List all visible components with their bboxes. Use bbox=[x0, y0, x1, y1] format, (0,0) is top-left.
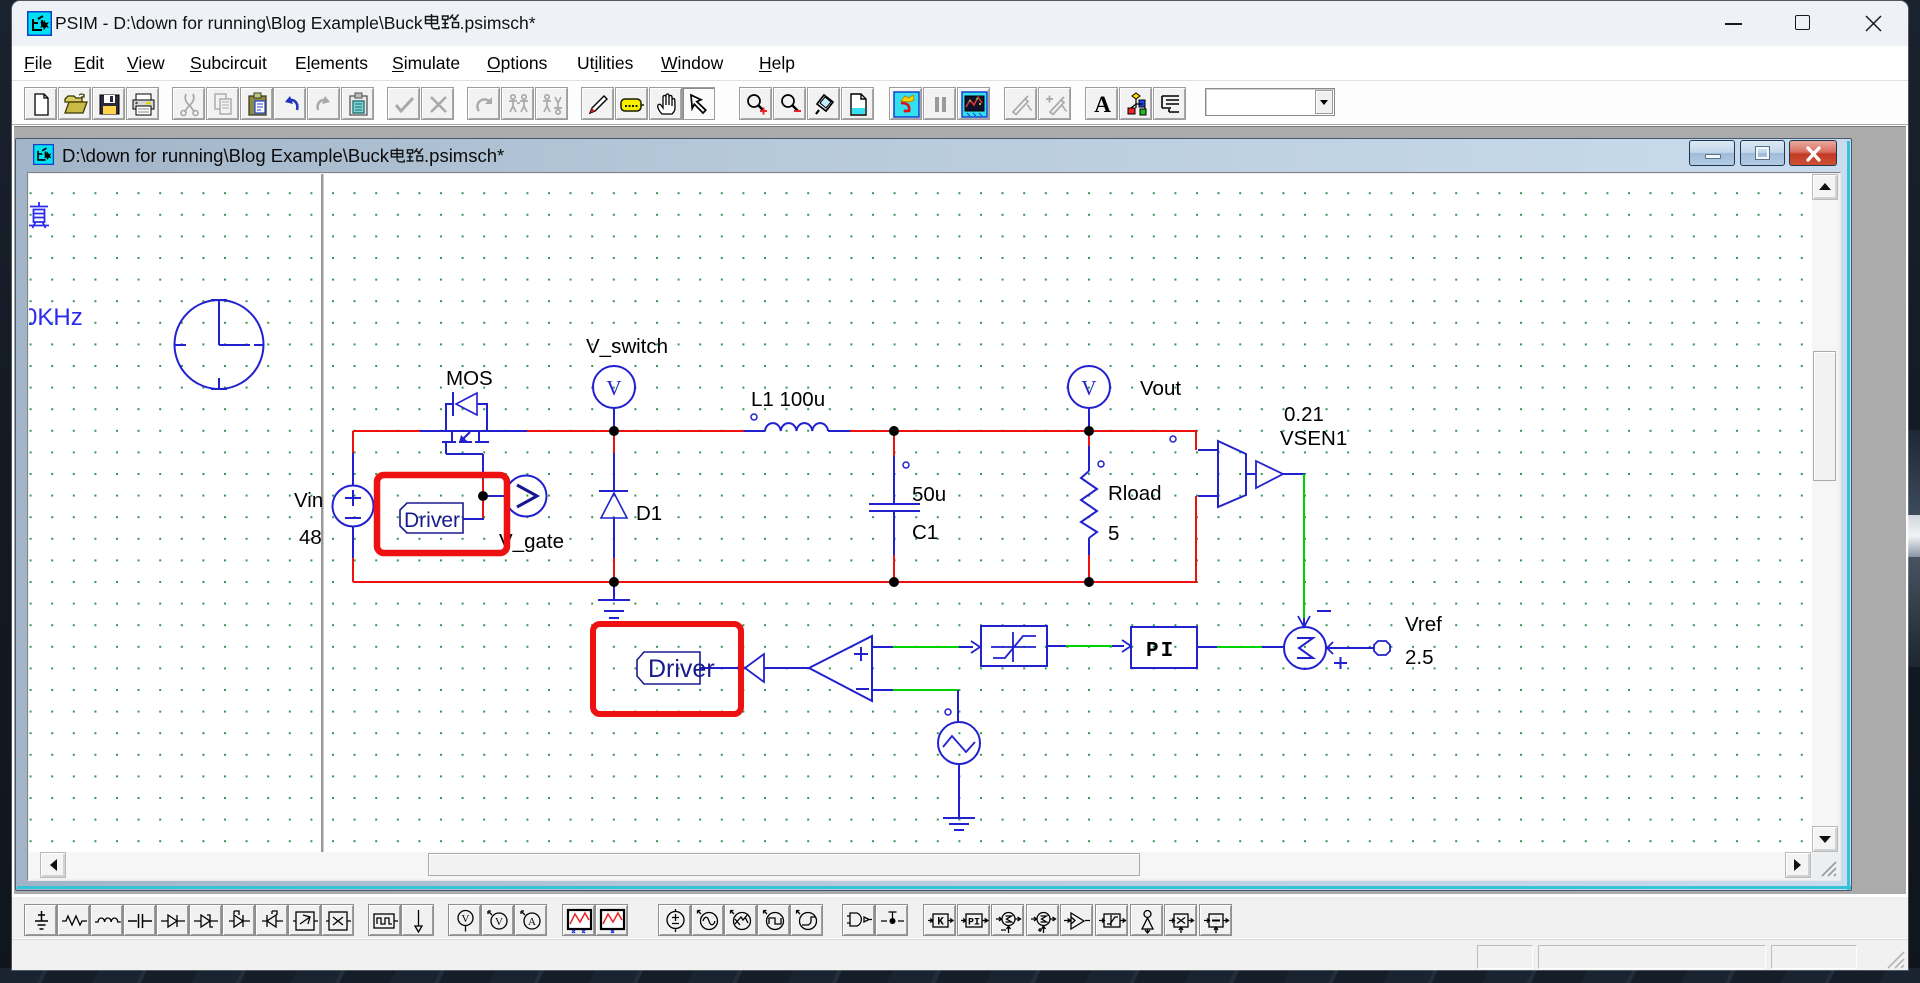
svg-text:K: K bbox=[937, 917, 944, 929]
toolbar icon redo bbox=[307, 87, 340, 120]
toolbar icon paste bbox=[240, 87, 273, 120]
arrow into summer top bbox=[1303, 618, 1305, 625]
toolbar icon select-cursor bbox=[682, 87, 715, 120]
element icon step-source bbox=[790, 904, 823, 936]
comparator plus bbox=[854, 653, 868, 655]
element icon thyristor bbox=[222, 904, 255, 936]
toolbar icon apply bbox=[387, 87, 420, 120]
element icon thyristor2 bbox=[255, 904, 288, 936]
wire: VSEN output green bbox=[1283, 473, 1305, 475]
zoom level combobox bbox=[1205, 88, 1335, 116]
svg-text:PI: PI bbox=[1146, 640, 1175, 663]
element icon v-sensor bbox=[481, 904, 514, 936]
svg-text:L1 100u: L1 100u bbox=[751, 388, 825, 411]
resistor Rload 5 bbox=[1081, 446, 1097, 555]
element icon scope bbox=[562, 904, 595, 936]
driver block U2 (gating) bbox=[637, 652, 700, 684]
svg-text:50u: 50u bbox=[912, 483, 946, 506]
wire: gate node red segment bbox=[482, 478, 484, 519]
wire: C1 red stubs bbox=[893, 431, 895, 456]
svg-text:VSEN1: VSEN1 bbox=[1280, 427, 1347, 450]
svg-text:D1: D1 bbox=[636, 502, 662, 525]
svg-text:V: V bbox=[1081, 376, 1096, 400]
driver block U1 (gating) bbox=[400, 503, 463, 533]
svg-text:A: A bbox=[528, 916, 536, 928]
wire: Rload red stubs bbox=[1088, 431, 1090, 446]
toolbar icon cut bbox=[172, 87, 205, 120]
wire: bottom rail red bbox=[353, 581, 1196, 583]
toolbar icon text-tool bbox=[1085, 87, 1118, 120]
element icon dc-source bbox=[658, 904, 691, 936]
annotation red box 2 (around Driver 2) bbox=[593, 624, 741, 714]
element icon sq-source bbox=[757, 904, 790, 936]
source sawtooth carrier bbox=[938, 722, 980, 764]
element icon voltmeter bbox=[448, 904, 481, 936]
wire: D1 red stubs bbox=[613, 431, 615, 453]
toolbar icon pan-hand bbox=[649, 87, 682, 120]
element icon node-symbol bbox=[1130, 904, 1163, 936]
PSIM app icon bbox=[27, 11, 52, 36]
source Vin 48 (DC) bbox=[333, 453, 374, 558]
toolbar icon label bbox=[615, 87, 648, 120]
junction node (894,581) bbox=[890, 578, 899, 587]
probe V_switch bbox=[613, 408, 615, 431]
svg-text:48: 48 bbox=[299, 526, 322, 549]
toolbar icon rotate bbox=[467, 87, 500, 120]
toolbar icon cancel bbox=[421, 87, 454, 120]
annotation red box 1 (around Driver/gate) bbox=[377, 475, 507, 553]
toolbar icon undo bbox=[273, 87, 306, 120]
element icon diode bbox=[156, 904, 189, 936]
toolbar icon subcircuit bbox=[1119, 87, 1152, 120]
element icon gain-K bbox=[923, 904, 956, 936]
toolbar icon pause bbox=[923, 87, 956, 120]
source Vref 2.5 bbox=[1327, 647, 1374, 649]
element icon tri-source bbox=[724, 904, 757, 936]
element icon scope2 bbox=[595, 904, 628, 936]
limiter block bbox=[981, 626, 1047, 666]
svg-text:PI: PI bbox=[968, 918, 980, 929]
svg-text:Vref: Vref bbox=[1405, 613, 1442, 636]
toolbar icon flip-tb bbox=[535, 87, 568, 120]
label 真 (simulation text, clipped) bbox=[29, 202, 49, 228]
toolbar icon copy bbox=[206, 87, 239, 120]
toolbar icon zoom-window bbox=[807, 87, 840, 120]
wire: driver to gate bbox=[463, 518, 484, 520]
element icon resistor bbox=[57, 904, 90, 936]
element icon probe-pin bbox=[401, 904, 434, 936]
wire+arrow into PI bbox=[1112, 645, 1124, 647]
wire: VSEN input corner bbox=[1195, 430, 1197, 450]
summer (sum block) bbox=[1284, 627, 1326, 669]
svg-text:0KHz: 0KHz bbox=[29, 304, 83, 331]
toolbar icon doc-cyan bbox=[841, 87, 874, 120]
svg-text:MOS: MOS bbox=[446, 367, 493, 390]
svg-text:V: V bbox=[606, 376, 621, 400]
svg-text:V: V bbox=[495, 916, 503, 928]
svg-text:C1: C1 bbox=[912, 521, 938, 544]
element icon on-off-switch bbox=[875, 904, 908, 936]
junction node (1089,581) bbox=[1085, 578, 1094, 587]
junction gate node bbox=[479, 492, 488, 501]
child min/restore/close bbox=[1689, 140, 1735, 166]
ground below D1 bbox=[598, 582, 630, 618]
toolbar icon run-simulation bbox=[889, 87, 922, 120]
junction node (614,430) bbox=[610, 427, 619, 436]
toolbar icon save bbox=[92, 87, 125, 120]
element icon amplifier bbox=[1060, 904, 1093, 936]
element icon inductor bbox=[90, 904, 123, 936]
element icon pi-block bbox=[957, 904, 990, 936]
comparator minus bbox=[856, 688, 869, 690]
toolbar icon new bbox=[24, 87, 57, 120]
element icon summer-minus bbox=[991, 904, 1024, 936]
element icon divider bbox=[1199, 904, 1232, 936]
PI controller block bbox=[1131, 627, 1197, 668]
toolbar icon wire-pencil bbox=[581, 87, 614, 120]
probe Vout bbox=[1088, 408, 1090, 431]
svg-text:5: 5 bbox=[1108, 522, 1119, 545]
svg-text:A: A bbox=[1094, 92, 1111, 117]
transistor MOS (MOSFET with body diode) bbox=[420, 392, 527, 479]
inductor L1 100u bbox=[744, 423, 850, 431]
svg-text:Driver: Driver bbox=[404, 509, 460, 532]
toolbar icon edit-curve bbox=[1004, 87, 1037, 120]
diode D1 bbox=[599, 453, 628, 558]
element icon gate bbox=[842, 904, 875, 936]
element icon summer-plus bbox=[1026, 904, 1059, 936]
svg-text:Rload: Rload bbox=[1108, 482, 1162, 505]
probe V_gate bbox=[506, 476, 547, 517]
svg-text:0.21: 0.21 bbox=[1284, 403, 1324, 426]
toolbar icon view-waveform bbox=[957, 87, 990, 120]
toolbar icon open bbox=[58, 87, 91, 120]
element icon bridge bbox=[288, 904, 321, 936]
summer plus sign bbox=[1334, 662, 1347, 664]
toolbar icon edit-curve2 bbox=[1038, 87, 1071, 120]
svg-text:Vout: Vout bbox=[1140, 377, 1181, 400]
wire: PI to summer bbox=[1197, 646, 1218, 648]
capacitor C1 50u bbox=[869, 456, 920, 555]
desktop streaks right edge bbox=[1908, 430, 1920, 515]
element icon ac-source bbox=[691, 904, 724, 936]
junction node (1089,430) bbox=[1085, 427, 1094, 436]
element icon bridge2 bbox=[321, 904, 354, 936]
svg-text:V_switch: V_switch bbox=[586, 335, 668, 358]
toolbar icon zoom-in bbox=[739, 87, 772, 120]
comparator minus input wire bbox=[872, 689, 893, 691]
element icon a-sensor bbox=[514, 904, 547, 936]
element icon ground bbox=[24, 904, 57, 936]
toolbar icon zoom-out bbox=[773, 87, 806, 120]
toolbar icon flip-lr bbox=[501, 87, 534, 120]
wire: Vin vertical red stubs bbox=[352, 431, 354, 453]
element icon pwm-source bbox=[368, 904, 401, 936]
ground below sawtooth bbox=[943, 817, 975, 819]
svg-text:2.5: 2.5 bbox=[1405, 646, 1434, 669]
wire: top rail red segments bbox=[353, 430, 420, 432]
sensor VSEN1 0.21 bbox=[1198, 441, 1283, 507]
simulation control clock bbox=[175, 300, 265, 389]
toolbar icon view-clipboard bbox=[341, 87, 374, 120]
element icon multiplier bbox=[1164, 904, 1197, 936]
window controls bbox=[1725, 23, 1742, 25]
wire+arrow into limiter bbox=[959, 646, 973, 648]
junction node (894,430) bbox=[890, 427, 899, 436]
NOT buffer to driver bbox=[764, 667, 809, 669]
summer minus sign bbox=[1317, 610, 1331, 612]
comparator (mirrored op-amp) bbox=[809, 636, 872, 701]
svg-text:Vin: Vin bbox=[294, 489, 323, 512]
page boundary line bbox=[321, 174, 324, 852]
svg-text:V: V bbox=[462, 913, 470, 925]
element icon limiter-block bbox=[1095, 904, 1128, 936]
junction node (614,581) bbox=[610, 578, 619, 587]
element icon zener bbox=[189, 904, 222, 936]
toolbar icon print bbox=[126, 87, 159, 120]
element icon capacitor bbox=[123, 904, 156, 936]
toolbar icon element-list bbox=[1153, 87, 1186, 120]
svg-text:Driver: Driver bbox=[648, 655, 715, 683]
